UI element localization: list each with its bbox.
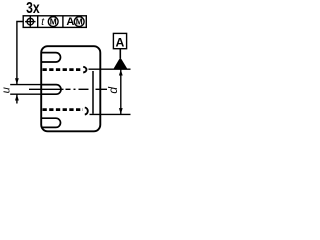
n bottom arrow [16,94,18,103]
MMC modifier 1 [48,16,58,26]
svg-text:3x: 3x [26,0,40,18]
hidden line top [43,68,83,71]
slot 3 (bottom) [41,118,60,127]
arrow down (n top) [15,78,19,84]
svg-text:M: M [76,16,83,26]
extension line bottom (n) [10,93,42,95]
datum box A [113,33,126,48]
svg-text:n: n [1,87,13,93]
svg-text:d: d [106,87,120,94]
svg-text:M: M [50,16,57,26]
slot 1 (top) [41,53,60,62]
arrow down (d bottom) [119,108,123,114]
extension line top (n) [10,84,42,86]
datum triangle [114,57,128,68]
svg-text:A: A [115,36,124,50]
datum stem [119,49,121,58]
hidden line bottom [43,108,84,111]
hidden arc bottom [85,108,88,115]
position symbol [25,16,35,26]
centerline [29,88,107,90]
d dimension line [120,70,122,115]
svg-text:A: A [66,16,74,28]
extension line bottom (d) [90,113,131,115]
part body outline [41,46,100,131]
slot floor line (vertical) [92,71,94,114]
extension line top (d) [89,68,131,70]
leader from frame to dimension [17,22,23,85]
feature control frame [23,16,86,28]
arrow up (d top) [119,70,123,76]
hidden arc top [83,67,86,73]
MMC modifier 2 [74,16,84,26]
slot 2 (middle) [41,85,61,95]
